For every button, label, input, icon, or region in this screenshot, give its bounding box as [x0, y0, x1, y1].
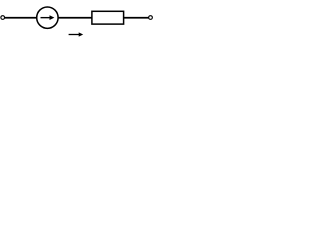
terminal (left open node): [1, 16, 5, 20]
wire: [4, 17, 36, 19]
current source: [37, 7, 58, 28]
resistor: [92, 11, 124, 24]
wire: [58, 17, 92, 19]
terminal (right open node): [149, 16, 153, 20]
current direction arrow: [69, 32, 84, 36]
wire: [124, 17, 149, 19]
